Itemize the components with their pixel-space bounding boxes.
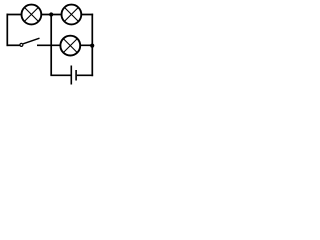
wire: middle row left segment to switch xyxy=(7,44,20,46)
battery B1 long plate (+) xyxy=(70,66,72,85)
battery B1 short plate (-) xyxy=(75,70,77,81)
switch S1 blade (open) xyxy=(23,38,39,44)
lamp L1 xyxy=(22,5,42,25)
wire: left vertical branch xyxy=(6,14,8,47)
lamp L2 xyxy=(62,5,82,25)
junction node: right rail (middle row) xyxy=(90,44,94,48)
wire: bottom right segment from battery xyxy=(77,74,93,76)
wire: right vertical rail xyxy=(91,14,93,77)
lamp L3 xyxy=(60,36,80,56)
wire: middle vertical branch xyxy=(50,15,52,76)
wire: bottom left segment to battery xyxy=(50,74,70,76)
wire: top conductor (node A row) xyxy=(7,14,94,16)
junction node: top (between L1 and L2) xyxy=(49,12,53,16)
switch S1 pivot contact xyxy=(20,43,23,46)
wire: middle row right segment from switch contact through node to right rail xyxy=(37,44,93,46)
